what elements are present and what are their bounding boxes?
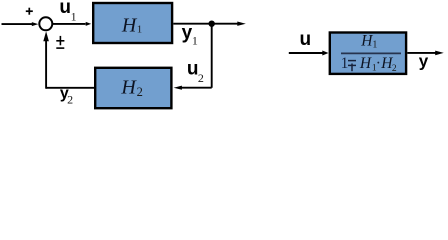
block H1 [93, 3, 172, 43]
wire input to summing junction [2, 23, 33, 25]
block equivalent transfer function [330, 33, 406, 74]
wire into H2 [179, 87, 212, 89]
wire equivalent block output [407, 52, 438, 54]
svg-text:H: H [359, 55, 372, 72]
svg-text:1: 1 [137, 24, 143, 36]
junction dot [209, 21, 215, 27]
svg-text:2: 2 [392, 64, 397, 74]
wire summing junction to H1 [52, 23, 85, 25]
svg-text:2: 2 [137, 85, 143, 99]
svg-text:H: H [120, 77, 137, 99]
summing junction [39, 17, 52, 30]
wire H1 output [173, 23, 240, 25]
svg-text:1: 1 [192, 34, 198, 48]
svg-text:u: u [300, 29, 312, 50]
svg-text:1: 1 [341, 55, 349, 72]
wire H2 output feedback [46, 87, 94, 89]
svg-text:·: · [376, 55, 381, 72]
wire down from junction [211, 24, 213, 88]
wire input to equivalent block [289, 52, 323, 54]
svg-text:2: 2 [198, 71, 204, 85]
plus-minus sign [56, 36, 64, 48]
svg-text:u: u [59, 0, 71, 18]
block H2 [95, 68, 171, 108]
svg-text:H: H [121, 14, 138, 36]
minus-plus sign [348, 61, 356, 72]
svg-text:1: 1 [71, 10, 77, 24]
svg-text:u: u [187, 59, 199, 80]
fraction bar [341, 52, 401, 54]
plus sign [26, 8, 33, 15]
svg-text:y: y [419, 52, 429, 71]
svg-text:2: 2 [67, 92, 73, 106]
svg-text:1: 1 [372, 40, 377, 51]
svg-text:H: H [360, 33, 373, 50]
